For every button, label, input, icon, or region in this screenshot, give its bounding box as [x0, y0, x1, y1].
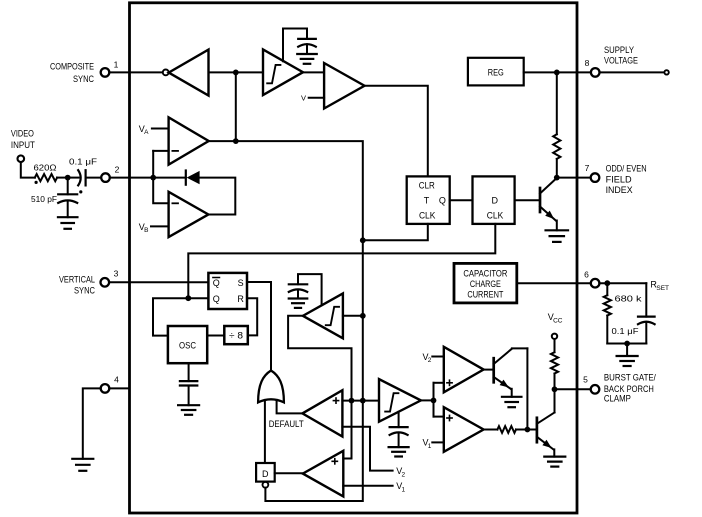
video input terminal — [18, 155, 25, 162]
svg-text:3: 3 — [114, 269, 119, 279]
svg-text:SYNC: SYNC — [73, 74, 94, 84]
svg-text:DEFAULT: DEFAULT — [269, 419, 304, 429]
node H junction latch Q — [185, 295, 191, 301]
resistor R1 620 ohm — [35, 174, 57, 181]
wire U10 output to Q5 base — [484, 369, 493, 371]
svg-text:INDEX: INDEX — [606, 185, 633, 195]
buffer U3 — [324, 63, 364, 109]
wire U8 input from comparator U9 — [275, 472, 303, 474]
wire U11 output to R3 — [484, 429, 498, 431]
svg-text:7: 7 — [585, 163, 590, 173]
divider block div8 — [224, 326, 248, 344]
wire U5 input from composite bus — [343, 315, 363, 317]
svg-text:1: 1 — [114, 60, 119, 70]
svg-text:SUPPLY: SUPPLY — [604, 45, 634, 55]
svg-text:4: 4 — [114, 375, 119, 385]
wire U3 output to FF1 CLR — [365, 86, 428, 177]
wire node Q to ground — [626, 344, 628, 357]
wire R3 to node M — [516, 429, 536, 431]
node B junction — [233, 138, 239, 144]
wire U2 feedback loop to C1 — [283, 29, 307, 62]
wire U8 bubble to composite bus bottom — [265, 401, 362, 501]
wire node F to pin 7 — [557, 177, 591, 179]
svg-text:VOLTAGE: VOLTAGE — [604, 56, 638, 66]
wire U5 feedback loop to C5 — [298, 274, 322, 304]
wire VA input — [152, 128, 169, 130]
svg-text:CLK: CLK — [487, 211, 504, 221]
svg-text:1: 1 — [428, 443, 432, 450]
VCC terminal — [552, 334, 557, 339]
diode D1 — [186, 171, 200, 185]
resistor R2 — [553, 134, 560, 159]
wire node B to composite bus — [236, 141, 363, 240]
U8 output bubble — [263, 482, 269, 488]
svg-text:CLAMP: CLAMP — [604, 394, 631, 404]
wire composite bus segment 2 — [362, 316, 364, 401]
wire C2 to pin 2 — [86, 177, 102, 179]
wire FF2 output to Q4 base — [515, 199, 539, 201]
comparator U10 V2 — [444, 347, 484, 393]
oscillator OSC — [168, 326, 207, 363]
wire VCC to R4 — [554, 339, 556, 352]
node C junction — [65, 175, 71, 181]
pin 7 terminal — [591, 173, 600, 182]
wire inverting inputs of VA VB — [153, 150, 168, 152]
node G junction CLK bus — [360, 237, 366, 243]
comparator VA — [169, 117, 209, 164]
wire pin 4 to IC — [109, 387, 129, 389]
node K junction — [360, 398, 366, 404]
flip-flop FF1 CLR T CLK — [407, 176, 450, 224]
ground C1 — [297, 54, 317, 64]
wire latch S to OR gate output — [247, 282, 271, 370]
svg-text:8: 8 — [585, 58, 590, 68]
svg-text:SYNC: SYNC — [74, 286, 95, 296]
node A junction — [233, 70, 239, 76]
svg-text:D: D — [262, 469, 269, 479]
transistor Q6 — [537, 389, 555, 456]
schmitt trigger U7 — [379, 379, 421, 422]
svg-text:CLK: CLK — [419, 211, 436, 221]
node D junction video line — [150, 175, 156, 181]
ground C5 — [289, 299, 308, 308]
latch U4 SR — [208, 273, 247, 309]
node P junction — [604, 280, 610, 286]
inverter U1 — [163, 50, 209, 96]
svg-text:D: D — [492, 196, 499, 206]
svg-text:0.1 μF: 0.1 μF — [612, 326, 639, 336]
svg-text:÷ 8: ÷ 8 — [229, 331, 243, 341]
wire pin 6 to RSET network — [599, 282, 646, 284]
svg-text:BACK PORCH: BACK PORCH — [604, 384, 654, 394]
wire node L to V2 V1 comparators — [433, 383, 435, 417]
wire latch R to divider — [247, 298, 257, 335]
resistor R3 — [497, 426, 516, 433]
wire V2 input — [432, 356, 444, 358]
wire C5 to ground — [297, 290, 299, 299]
IC boundary box — [130, 3, 578, 513]
schmitt trigger U2 — [263, 49, 303, 95]
node I junction — [360, 313, 366, 319]
capacitor C6 — [390, 412, 408, 447]
pin 6 terminal — [591, 279, 600, 288]
ground C3 — [58, 217, 77, 229]
capacitor C2 0.1uF series — [78, 170, 85, 185]
svg-text:ODD/ EVEN: ODD/ EVEN — [606, 163, 647, 173]
svg-text:T: T — [424, 196, 430, 206]
wire C1 to ground — [306, 44, 308, 54]
wire VB input — [151, 225, 169, 227]
wire VA output to node B — [209, 140, 236, 142]
pin 2 terminal — [101, 173, 110, 182]
node N junction pin 5 — [552, 386, 558, 392]
wire node C to C2 — [68, 177, 79, 179]
ground C6 — [389, 447, 409, 456]
svg-text:5: 5 — [583, 375, 588, 385]
svg-text:CURRENT: CURRENT — [467, 289, 503, 299]
capacitor charge current block — [454, 263, 517, 303]
capacitor C4 OSC — [180, 363, 197, 405]
schmitt trigger U5 — [303, 293, 343, 338]
wire U9 plus input — [343, 401, 351, 459]
svg-text:VIDEO: VIDEO — [11, 128, 34, 138]
svg-text:Q: Q — [439, 196, 446, 206]
wire composite bus segment — [362, 240, 364, 315]
node F junction pin7 — [554, 175, 560, 181]
pin 8 terminal — [591, 68, 600, 77]
svg-text:CLR: CLR — [419, 180, 435, 190]
capacitor C1 — [298, 39, 316, 47]
wire U6 minus input to V2 net — [342, 427, 392, 471]
svg-text:BURST GATE/: BURST GATE/ — [604, 373, 656, 383]
svg-text:2: 2 — [428, 357, 432, 364]
comparator U11 V1 — [444, 407, 484, 452]
wire input terminal to R1 — [21, 162, 35, 178]
wire D1 to VB feedback corner — [200, 178, 236, 215]
pin 4 terminal — [101, 384, 110, 393]
wire OSC to div8 — [207, 335, 224, 337]
wire U2 to buffer U3 — [303, 71, 324, 73]
regulator block REG — [468, 58, 524, 86]
wire U7 output to node L — [421, 399, 434, 401]
svg-text:CAPACITOR: CAPACITOR — [463, 268, 507, 278]
svg-text:FIELD: FIELD — [606, 174, 633, 184]
wire R1 to node C — [57, 177, 68, 179]
wire node A down to node B — [235, 72, 237, 141]
supply voltage terminal — [664, 70, 668, 74]
svg-text:510 pF: 510 pF — [31, 194, 57, 204]
pin 1 terminal — [101, 68, 110, 77]
wire pin1 to inverter — [109, 71, 162, 73]
wire U5 output down to comparator — [288, 316, 351, 401]
node Q junction ground — [624, 341, 630, 347]
wire node N to pin 5 — [555, 388, 591, 390]
svg-text:2: 2 — [402, 471, 406, 478]
transistor Q4 — [540, 178, 557, 230]
asterisk mark C2 — [79, 190, 82, 193]
svg-text:SET: SET — [656, 285, 669, 292]
svg-text:COMPOSITE: COMPOSITE — [50, 61, 94, 71]
svg-text:Q: Q — [213, 294, 220, 304]
ground RSET — [617, 356, 638, 366]
wire node E to R2 — [556, 72, 558, 134]
wire pin 3 to latch — [109, 281, 208, 283]
wire block to pin 6 — [517, 282, 591, 284]
wire node D to diode D1 — [153, 177, 186, 179]
node L junction — [431, 398, 437, 404]
wire G1 left input from D latch — [264, 401, 266, 463]
wire R4 to node N — [554, 374, 556, 390]
svg-text:1: 1 — [402, 487, 406, 494]
wire Q5 collector to node M — [526, 348, 528, 429]
comparator U6 DEFAULT — [302, 390, 342, 436]
svg-text:620Ω: 620Ω — [34, 162, 57, 172]
wire pin 4 to ground — [83, 388, 101, 458]
svg-text:680 k: 680 k — [615, 294, 643, 304]
ground pin 4 — [72, 459, 93, 471]
node E junction supply — [554, 70, 560, 76]
svg-text:INPUT: INPUT — [11, 140, 35, 150]
asterisk mark R1 — [35, 181, 38, 184]
wire FF2 CLK to latch Q — [188, 224, 495, 298]
wire latch Q to OSC — [153, 298, 208, 335]
comparator VB — [169, 192, 209, 237]
d latch U8 — [256, 463, 275, 482]
wire pin 8 to supply terminal — [600, 71, 665, 73]
ground Q5 — [502, 397, 522, 407]
flip-flop FF2 D CLK — [473, 176, 515, 224]
pin 5 terminal — [591, 385, 600, 394]
svg-text:CHARGE: CHARGE — [470, 279, 501, 289]
wire R2 to node F — [556, 159, 558, 178]
wire U1 output to node A — [209, 71, 236, 73]
resistor R4 — [551, 352, 558, 373]
transistor Q5 — [494, 348, 528, 396]
node J junction — [349, 398, 355, 404]
wire U9 minus input to V1 net — [343, 485, 392, 487]
comparator U9 — [303, 451, 344, 497]
svg-text:REG: REG — [488, 68, 504, 78]
svg-text:VERTICAL: VERTICAL — [59, 274, 95, 284]
or gate G1 — [258, 371, 284, 403]
wire FF1 Q to FF2 D — [450, 199, 473, 201]
svg-text:R: R — [237, 294, 244, 304]
wire RSET bottom — [607, 343, 646, 345]
capacitor C5 — [289, 284, 307, 292]
wire FF1 CLK line — [363, 224, 428, 240]
wire V1 input — [432, 441, 444, 443]
pin 3 terminal — [101, 278, 110, 287]
resistor R5 680k — [604, 283, 611, 343]
svg-text:S: S — [238, 278, 244, 288]
capacitor C3 510pF — [58, 178, 77, 218]
wire V input of U3 — [309, 97, 324, 99]
wire node A to schmitt U2 — [236, 71, 263, 73]
svg-text:0.1 μF: 0.1 μF — [69, 157, 97, 167]
ground C4 — [178, 405, 199, 415]
svg-text:6: 6 — [584, 270, 589, 280]
svg-text:B: B — [144, 227, 148, 234]
svg-text:CC: CC — [553, 317, 563, 324]
wire U6 plus input to schmitt U7 — [342, 400, 379, 402]
ground Q4 — [546, 230, 569, 242]
svg-text:A: A — [144, 129, 149, 136]
svg-text:Q: Q — [213, 278, 220, 288]
wire G1 right input from DEFAULT — [277, 401, 303, 414]
svg-text:OSC: OSC — [179, 341, 196, 351]
capacitor C7 0.1uF — [638, 283, 655, 343]
ground Q6 — [544, 457, 565, 467]
svg-text:2: 2 — [115, 165, 120, 175]
wire pin 2 into IC — [110, 177, 153, 179]
node M junction Q6 base — [525, 427, 531, 433]
wire REG output to pin 8 — [524, 71, 591, 73]
svg-text:V: V — [301, 94, 306, 103]
